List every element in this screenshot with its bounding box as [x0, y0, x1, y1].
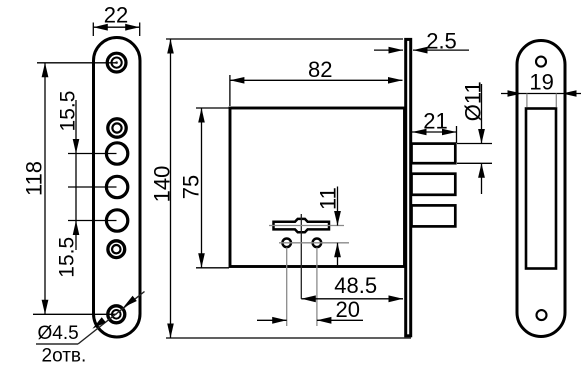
- svg-text:48.5: 48.5: [334, 273, 377, 298]
- dim 15.5 chain line: [75, 100, 77, 250]
- bolt 1: [412, 144, 456, 164]
- screw hole bottom: [108, 306, 125, 323]
- svg-text:11: 11: [316, 187, 341, 210]
- svg-text:19: 19: [529, 69, 553, 94]
- dim 140 extension top: [166, 38, 403, 40]
- large hole 1: [106, 143, 127, 164]
- svg-text:20: 20: [336, 297, 360, 322]
- dim O11 line upper: [481, 84, 483, 144]
- faceplate side view: [406, 39, 411, 335]
- dim 140 line: [170, 39, 172, 338]
- fixing hole 1: [282, 239, 291, 248]
- small hole lower: [108, 241, 125, 258]
- lock body: [230, 108, 405, 267]
- dim 19 line: [501, 93, 581, 95]
- strike hole bottom: [537, 310, 547, 320]
- dim 19 extension left: [526, 94, 528, 108]
- bolt 2: [412, 174, 456, 195]
- svg-text:22: 22: [104, 2, 128, 27]
- screw hole top: [107, 53, 126, 72]
- dim 2.5 right line: [413, 49, 469, 51]
- svg-text:21: 21: [423, 108, 447, 133]
- dim 48.5 line: [301, 298, 403, 300]
- dim 21 line: [412, 131, 457, 133]
- dim 75 extension top: [196, 107, 229, 109]
- dim 75 line: [201, 108, 203, 268]
- key bit slot: [274, 219, 330, 232]
- dim O11 extension bottom: [457, 162, 492, 164]
- key slot horizontal centreline: [269, 225, 344, 227]
- dim 11 line lower: [337, 243, 339, 265]
- fixing holes centreline: [279, 242, 349, 244]
- svg-text:2.5: 2.5: [426, 29, 457, 54]
- dim 140 extension bottom: [166, 337, 411, 339]
- leader O4.5 shelf: [36, 343, 78, 345]
- svg-text:Ø4.5: Ø4.5: [38, 323, 79, 344]
- svg-text:82: 82: [308, 57, 332, 82]
- strike plate outline: [517, 41, 565, 337]
- fixing hole 2 vertical line: [316, 248, 318, 327]
- dim 19 extension right: [555, 94, 557, 108]
- dim 20 right line: [317, 319, 363, 321]
- leader O4.5 diagonal: [78, 292, 145, 345]
- dim 75 extension bottom: [196, 267, 229, 269]
- dim 2.5 left line: [374, 49, 403, 51]
- dim 118 extension top: [37, 62, 117, 64]
- svg-text:2отв.: 2отв.: [42, 346, 87, 365]
- extension hole3: [68, 220, 117, 222]
- dim O11 extension top: [457, 143, 492, 145]
- svg-text:75: 75: [179, 175, 204, 199]
- svg-text:118: 118: [22, 161, 47, 196]
- svg-text:15.5: 15.5: [57, 91, 80, 132]
- svg-text:140: 140: [150, 166, 175, 203]
- dim 82 line: [230, 79, 403, 81]
- small hole upper: [108, 119, 126, 137]
- dim 118 extension bottom: [33, 313, 117, 315]
- dim O11 line lower: [481, 163, 483, 194]
- dim 20 left line: [257, 319, 287, 321]
- large hole 2: [106, 176, 127, 197]
- fixing hole 1 vertical line: [286, 248, 288, 327]
- dim 22 line: [93, 26, 139, 28]
- faceplate front outline: [94, 38, 141, 338]
- dim 22 extension lines: [92, 23, 94, 37]
- key slot vertical centreline: [300, 214, 302, 299]
- fixing hole 2: [313, 239, 322, 248]
- large hole 3: [106, 210, 127, 231]
- strike hole top: [536, 57, 546, 67]
- extension hole1: [68, 153, 117, 155]
- dim 82 extension left: [229, 75, 231, 106]
- dim 21 right extension: [456, 126, 458, 143]
- dim 11 line upper: [337, 187, 339, 226]
- svg-text:Ø11: Ø11: [461, 81, 486, 121]
- strike slot: [526, 109, 556, 269]
- dim 118 line: [44, 63, 46, 314]
- svg-text:15.5: 15.5: [56, 237, 79, 278]
- bolt 3: [412, 205, 456, 226]
- extension hole2: [68, 186, 117, 188]
